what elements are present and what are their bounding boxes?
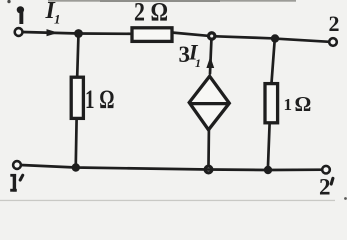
svg-text:1: 1 — [284, 95, 293, 114]
svg-text:1: 1 — [195, 56, 201, 70]
svg-text:1 Ω: 1 Ω — [85, 85, 115, 114]
svg-text:2: 2 — [329, 11, 340, 36]
svg-text:2 Ω: 2 Ω — [134, 0, 168, 27]
svg-text:2: 2 — [319, 174, 331, 199]
svg-text:1: 1 — [54, 12, 61, 27]
svg-text:Ω: Ω — [295, 92, 312, 116]
